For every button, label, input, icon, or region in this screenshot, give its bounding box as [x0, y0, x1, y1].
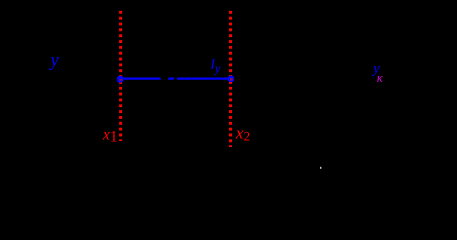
wire interval I_y break dash: [168, 78, 175, 80]
svg-text:κ: κ: [377, 71, 384, 85]
svg-text:x: x: [235, 124, 244, 143]
stray white speck: [320, 167, 321, 169]
node endpoint dot at x2: [228, 76, 234, 82]
node endpoint dot at x1: [117, 76, 124, 83]
wire interval I_y segment left part: [117, 78, 161, 80]
svg-text:2: 2: [244, 130, 250, 144]
svg-text:y: y: [213, 61, 221, 76]
wire interval I_y segment right part: [177, 78, 234, 80]
svg-text:1: 1: [110, 129, 118, 146]
svg-text:y: y: [49, 51, 60, 71]
node x1 dotted guide line: [119, 11, 122, 141]
node x2 dotted guide line: [229, 11, 232, 147]
